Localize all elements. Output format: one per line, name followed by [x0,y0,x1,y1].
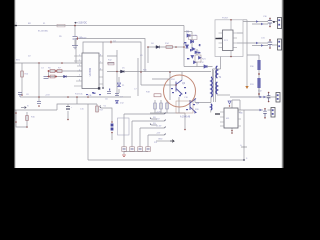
wire startup resistor branch [21,63,23,95]
resistor R9 on feedback [110,41,112,43]
cluster resistor box [189,36,198,40]
junction dot y97 b [87,96,89,98]
wire aux drop [147,47,149,63]
black bar right [284,0,300,168]
junction dot fb drop [102,87,104,89]
resistor R31 snub [257,78,260,88]
junction dot rail end [183,46,185,48]
junction dot J-rail1 [61,62,63,64]
wire emitter bus [150,112,185,114]
junction dot O1a [269,18,271,20]
wire circle crossings [152,72,170,100]
junction dot gate [169,71,171,73]
wire C1 branch [74,26,76,37]
connector J2 [278,39,282,50]
ground bank red [122,155,126,157]
regulator diodes D11 [111,124,114,131]
wire sense loop [16,110,27,127]
transformer T1 aux winding [211,104,212,110]
transformer T1 secondary winding [216,66,217,94]
wire opto2 top link [232,100,240,110]
junction dot snub2 [258,93,260,95]
net hook stair2 [164,119,165,121]
resistor R17 [96,106,99,112]
transformer T1 primary winding [211,77,212,97]
label Q area texts [171,79,200,111]
wire snub chain [247,55,259,97]
wire secondary tap stubs [217,94,230,96]
junction dot O3a [268,92,270,94]
junction dot reg1 [111,121,113,123]
box around sense network [176,101,193,113]
diode D5 gate [121,70,125,73]
wire base feed [141,84,176,86]
junction dot lowrail3 [116,71,118,73]
wire output2 rail [243,43,277,46]
resistor R21 emitter [154,103,157,109]
resistor R5 [50,75,55,78]
cap bank plates [123,149,150,150]
fuse F1 [57,24,65,27]
svg-text:R13 10k: R13 10k [75,94,82,96]
junction cross c [48,76,50,78]
U1 right pins [99,56,103,84]
junction dot lowrail [38,96,40,98]
svg-text:A 1N4148: A 1N4148 [180,116,191,119]
net hook stair1 [164,112,165,114]
wire bulk cap bus [57,104,97,110]
wire snub cap branch [38,97,40,101]
net diamond 310 [74,22,77,24]
black bar right soft edge [281,0,283,168]
label -12V tick [241,146,247,148]
capacitor C32 [267,93,271,102]
transistor Q2 [190,99,196,114]
wire feedback loop outer [76,39,145,73]
op-amp U3 opto2 [224,108,238,128]
resistor R4 [108,62,114,65]
IC bottom speckle [92,92,101,95]
junction dot O2b [269,47,271,49]
highlight circle around Q1 [164,75,196,107]
wire C1 to ground [74,40,76,46]
zener D6 [117,83,121,87]
net hook stair3 [164,126,165,128]
wire output4 rail [237,109,271,111]
IC bottom speckle2 [86,89,110,96]
svg-text:GND: GND [158,139,163,141]
wire collector runner [181,72,183,80]
capacitor bank C20 [122,147,127,152]
junction dot U3 gnd2 [231,132,233,134]
transformer T1 core [213,70,215,102]
wire bottom input rail [15,109,58,111]
transistor Q1 [176,80,182,95]
junction dot C14 [38,105,40,107]
wire aux vcc drop [76,97,78,104]
capacitor C7 [115,94,119,96]
svg-text:PC817: PC817 [222,18,229,20]
junction dot O4b [264,117,266,119]
svg-text:+12V: +12V [156,112,161,114]
power arrow orange [245,86,248,89]
op-amp U2 opto [223,30,234,51]
wire bulk cap leg [67,104,69,119]
box reg outline [118,118,130,135]
U1 left pins [74,56,82,86]
junction dot zc [229,105,230,106]
wire opto link [237,33,243,43]
junction dot C15 [67,119,69,121]
junction dot y97 a [67,96,69,98]
net hook stair4 [164,133,165,135]
output2 rectifier D21 [256,42,264,47]
input tick [15,25,18,27]
resistor R8 on feedback [77,37,79,39]
resistor R18 [154,94,161,97]
resistor R2 [50,70,55,73]
schematic page background [0,0,300,168]
junction dot R10 end [21,94,23,96]
wire sense drop [179,97,185,129]
wire snubber left [191,32,193,49]
wire left low rail [20,96,131,98]
resistor R20 box [195,55,201,62]
wire gate drive [107,71,211,73]
junction dot O1b [269,26,271,28]
capacitor C14 [37,102,41,104]
resistor R16 sense loop [26,116,29,121]
wire AC input rail [15,25,185,27]
capacitor C30 [268,18,272,27]
svg-text:+15V: +15V [45,95,50,97]
diode D8 aux [156,46,160,49]
capacitor C6 [107,92,111,94]
junction dot O4a [264,108,266,110]
svg-text:+310VDC: +310VDC [77,23,87,25]
label IC bottom texts [88,95,123,101]
wire output4 drop [243,110,245,160]
capacitor C15 bulk [66,107,70,110]
wire reg device branch [101,108,112,140]
wire stair net 5 [156,140,170,142]
svg-text:UC3842: UC3842 [90,67,92,76]
junction dot U1 corner [98,87,100,89]
black bar left [0,0,14,168]
wire box top extension [243,20,247,22]
junction dot lowrail2 [76,96,78,98]
diode D1 [64,75,67,78]
zener D12 [116,101,119,104]
wire aux supply row [148,46,184,48]
capacitor C33 [263,109,267,118]
junction dot sense1 [15,112,17,114]
junction cross d [55,76,57,78]
output3 rectifier D22 [260,96,267,98]
resistor R23 emitter [166,103,169,109]
wire T1 primary stubs [203,57,221,113]
junction dot U2 bottom [230,56,232,58]
junction dot snub1 [258,73,260,75]
capacitor C13 low rail left [18,93,22,98]
wire cap bank bottom bus [124,152,148,155]
junction dot base [175,84,177,86]
connector J4 [271,108,275,118]
junction dot fb-gate [140,71,142,73]
net hook reg input [100,106,101,109]
wire snubber top [184,31,192,33]
wire stair net 1 [124,114,164,147]
svg-text:85-265VAC: 85-265VAC [38,30,49,33]
wire emitter chain [155,100,167,113]
junction dot J-ac [74,25,76,27]
wire zener branch [118,77,120,93]
black bar left soft edge [14,0,16,168]
resistor R1 startup [21,71,24,77]
zener chain mid right [228,101,231,104]
wire RC row to IC [49,71,83,77]
wire primary return [195,98,203,103]
wire output3 rail [230,88,276,97]
Q cluster speckle [171,88,195,110]
capacitor bank C23 [146,147,151,152]
resistor R14 [166,46,173,49]
junction dot aux2 [175,46,177,48]
U2 input stub [216,38,223,40]
junction dot aux1 [147,46,149,48]
opto box1 outline [215,20,243,57]
wire snubber inner [196,49,198,67]
junction dot U2 top [230,19,232,21]
label cluster speckle texts [183,35,201,55]
snubber diode cluster D9 [186,34,208,68]
U2 pins [219,33,238,48]
capacitor C31 [268,39,272,48]
resistor R3 [57,70,62,73]
wire left DC rail [15,62,88,64]
blue mark under IC [93,93,96,94]
junction dot O2a [269,39,271,41]
capacitor bank C22 [138,147,143,152]
diode cluster speckle a [184,42,200,59]
capacitor bank C21 [130,147,135,152]
U3 pins [220,112,241,126]
wire vcc cap branch [38,63,40,97]
svg-text:PG: PG [154,142,157,144]
junction dot U3 gnd1 [231,130,233,132]
net arrow AC-L [21,106,26,108]
U1 pin numbers [79,55,102,82]
junction cross b [55,70,57,72]
net hook fb a [150,117,157,119]
junction dot reg2 [111,132,113,134]
wire stair net 3 [140,128,164,147]
resistor R30 snub [257,60,260,70]
wire primary HV drop [184,26,213,67]
svg-text:-12V: -12V [156,133,161,135]
output1 rectifier D20 [256,20,264,25]
connector J1 [278,18,282,29]
diode small O1 [273,21,275,23]
junction dot O3b [268,101,270,103]
wire sense divider [117,50,138,96]
wire bottom return bus [88,159,244,161]
svg-text:+3.3V: +3.3V [156,126,162,128]
output4 rectifier D23 [260,109,263,111]
junction dot bottom [243,159,245,161]
wire long return [87,104,89,160]
U3 input stub [215,113,220,115]
junction dot sense3 [26,126,28,128]
connector J3 [276,93,280,103]
U2 vertical links [230,20,232,57]
junction dot sense2 [15,121,17,123]
junction cross a [48,70,50,72]
net arrow stair5 [170,140,174,143]
junction dot sense [184,129,186,131]
wire reg input [96,104,98,112]
net hook fb b [150,123,157,125]
wire stair net 2 [132,121,164,147]
capacitor C1 [73,37,78,40]
ground GND1 [72,46,78,49]
junction dot J-rail2 [38,62,39,63]
wire stair net 4 [148,135,164,147]
wire output1 rail [243,22,277,25]
resistor R22 emitter [160,103,163,109]
capacitor C2 vcc [44,77,49,79]
op-amp U1 PWM controller [82,53,99,89]
wire feedback loop inner [83,42,141,88]
wire IC pin row outputs [107,56,117,63]
Q1 detail marks [172,84,186,93]
wire rectifier feed [246,22,248,87]
wire opto2 ground [231,128,233,133]
